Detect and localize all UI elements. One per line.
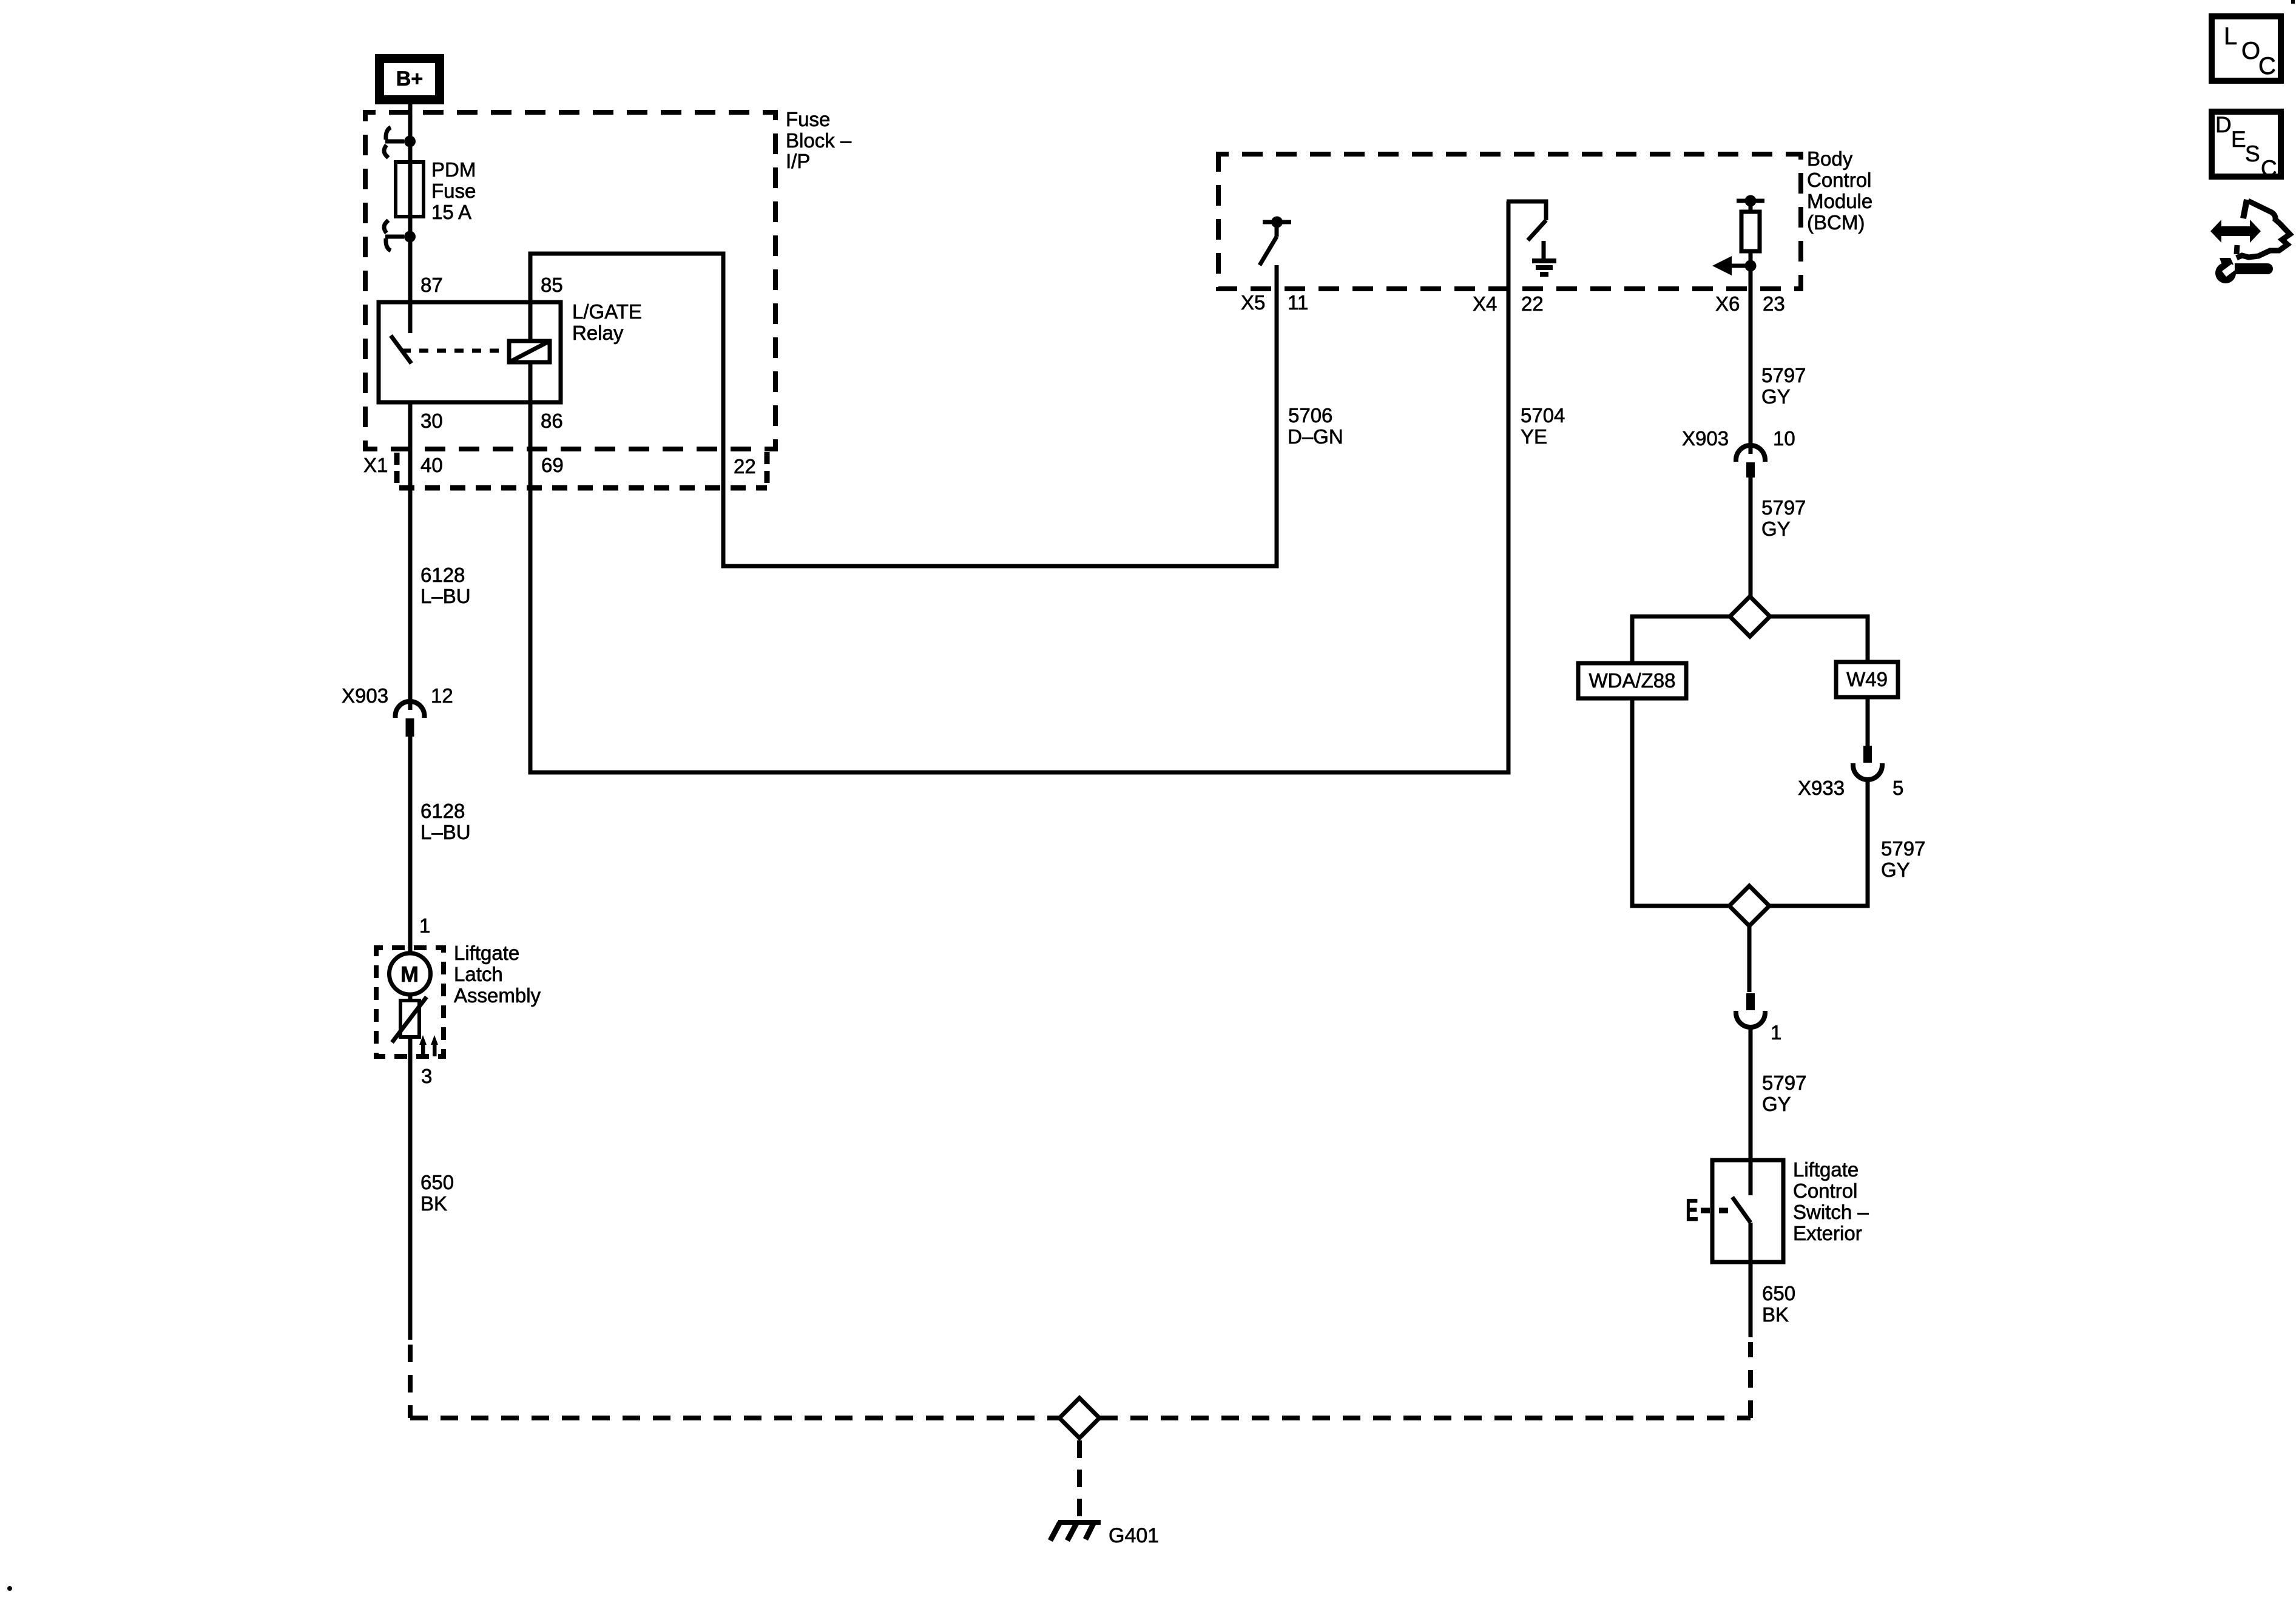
svg-text:10: 10 — [1773, 427, 1795, 450]
wire WDA/Z88 down to lower splice — [1632, 698, 1729, 906]
svg-text:5706: 5706 — [1288, 404, 1332, 427]
svg-text:X4: X4 — [1473, 292, 1497, 315]
svg-text:3: 3 — [421, 1065, 432, 1087]
svg-text:Control: Control — [1807, 169, 1871, 191]
svg-text:C: C — [2258, 53, 2276, 79]
BCM X4 internal ground symbol — [1542, 241, 1546, 260]
svg-text:GY: GY — [1762, 1093, 1791, 1115]
latch PTC thermistor — [400, 1001, 419, 1037]
svg-text:5797: 5797 — [1881, 837, 1925, 860]
svg-text:(BCM): (BCM) — [1807, 211, 1865, 234]
svg-text:BK: BK — [420, 1192, 447, 1215]
svg-text:23: 23 — [1763, 292, 1785, 315]
svg-text:Fuse: Fuse — [431, 180, 476, 202]
B+ battery feed box — [380, 59, 440, 100]
svg-text:15 A: 15 A — [431, 201, 471, 223]
latch direction arrows — [419, 1035, 438, 1056]
relay coil box — [509, 341, 550, 362]
dashed ground wire left vertical — [408, 1345, 413, 1418]
svg-text:5797: 5797 — [1762, 1072, 1806, 1094]
svg-text:22: 22 — [1521, 292, 1544, 315]
wire X903-10 down to splice — [1749, 478, 1753, 596]
connector X903-12 male pin — [406, 718, 414, 737]
connector X903-10 female dome — [1736, 445, 1765, 462]
svg-text:Block –: Block – — [786, 129, 852, 152]
svg-text:6128: 6128 — [420, 800, 465, 822]
svg-text:X933: X933 — [1798, 777, 1845, 799]
svg-text:Liftgate: Liftgate — [454, 942, 519, 964]
svg-text:Liftgate: Liftgate — [1793, 1158, 1859, 1181]
svg-text:87: 87 — [420, 274, 443, 296]
wire X933 down to lower splice — [1769, 779, 1868, 906]
connector X933-5 female cup — [1853, 763, 1882, 780]
svg-text:Exterior: Exterior — [1793, 1222, 1862, 1244]
BCM X6 resistor — [1749, 201, 1753, 212]
svg-text:Switch –: Switch – — [1793, 1201, 1869, 1223]
page artifact period bottom left — [7, 1586, 12, 1591]
wire 6128 L-BU relay 30 down to X903-12 — [408, 402, 413, 710]
wire lower splice down to connector 1 — [1747, 926, 1752, 992]
svg-text:69: 69 — [541, 454, 564, 476]
svg-text:GY: GY — [1761, 518, 1791, 540]
wire from B+ through fuse to relay pin 87 stub — [408, 104, 413, 333]
svg-text:X1: X1 — [363, 454, 388, 476]
electrical repair icon wrench — [2215, 258, 2236, 283]
LOC legend box — [2212, 16, 2281, 81]
fuse block I/P dashed box — [365, 112, 775, 449]
svg-text:12: 12 — [431, 684, 453, 707]
liftgate control switch box — [1712, 1160, 1783, 1262]
WDA/Z88 box — [1578, 663, 1686, 698]
svg-text:PDM: PDM — [431, 158, 476, 181]
svg-text:5797: 5797 — [1761, 496, 1806, 519]
svg-text:L–BU: L–BU — [420, 821, 471, 843]
svg-text:D–GN: D–GN — [1288, 425, 1343, 448]
fuse clip lower (junction dot, bar, hooks) — [404, 231, 416, 243]
switch blade — [1732, 1197, 1751, 1223]
svg-text:E: E — [2231, 127, 2246, 152]
svg-text:22: 22 — [734, 455, 756, 478]
BCM X6 wire below resistor — [1749, 251, 1753, 454]
svg-text:5704: 5704 — [1521, 404, 1565, 427]
svg-text:X903: X903 — [342, 684, 388, 707]
E marker dashes — [1701, 1208, 1728, 1214]
svg-text:11: 11 — [1288, 291, 1308, 314]
svg-text:Body: Body — [1807, 147, 1853, 170]
svg-text:5797: 5797 — [1761, 364, 1806, 387]
switch internal stub — [1749, 1160, 1753, 1195]
wire 5706 D-GN from BCM X5-11 to relay coil 85 — [530, 254, 1277, 566]
svg-text:6128: 6128 — [420, 564, 465, 586]
dashed stub to G401 — [1077, 1440, 1082, 1521]
BCM X6 top dot — [1745, 195, 1757, 207]
DESC legend box — [2212, 112, 2281, 177]
connector X933-5 male pin — [1863, 746, 1872, 763]
electrical repair icon glove outline — [2243, 200, 2247, 218]
svg-text:WDA/Z88: WDA/Z88 — [1589, 669, 1675, 692]
relay coil diagonal — [509, 341, 550, 362]
svg-text:85: 85 — [541, 274, 563, 296]
svg-text:M: M — [400, 962, 419, 987]
wire splice to W49 — [1770, 616, 1868, 662]
svg-text:YE: YE — [1521, 425, 1547, 448]
wire connector 1 to switch — [1749, 1027, 1753, 1160]
svg-text:650: 650 — [420, 1171, 454, 1193]
svg-text:W49: W49 — [1846, 668, 1888, 690]
svg-text:86: 86 — [541, 410, 563, 432]
svg-text:1: 1 — [419, 914, 430, 937]
svg-text:5: 5 — [1893, 777, 1903, 799]
svg-text:Assembly: Assembly — [454, 984, 541, 1007]
dashed ground wire left horizontal — [410, 1416, 1059, 1420]
svg-text:B+: B+ — [396, 67, 423, 90]
fuse PDM 15A rectangle — [396, 162, 424, 217]
svg-text:30: 30 — [420, 410, 443, 432]
fuse clip upper (junction dot, bar, hooks) — [404, 136, 416, 147]
svg-text:O: O — [2241, 38, 2260, 64]
svg-text:Latch: Latch — [454, 963, 503, 985]
wire switch to bottom 650 BK — [1749, 1223, 1753, 1337]
wire 6128 L-BU to latch — [408, 737, 413, 953]
BCM X6 junction dot — [1745, 260, 1757, 272]
ground splice diamond — [1059, 1398, 1099, 1438]
splice diamond lower — [1729, 886, 1769, 926]
connector pin 1 female cup — [1736, 1011, 1765, 1027]
svg-text:Module: Module — [1807, 190, 1872, 212]
dashed ground wire right vertical — [1748, 1342, 1753, 1418]
BCM X6 arrowhead — [1712, 256, 1732, 275]
wire 650 BK latch to ground run — [408, 1037, 413, 1340]
svg-text:L/GATE: L/GATE — [572, 300, 642, 323]
BCM X6 bar — [1737, 199, 1764, 203]
electrical repair icon double arrow — [2210, 220, 2261, 243]
svg-text:GY: GY — [1881, 859, 1910, 881]
wire W49 down to X933 — [1866, 697, 1870, 746]
W49 box — [1836, 662, 1898, 697]
svg-text:GY: GY — [1761, 385, 1791, 408]
G401 chassis ground symbol — [1058, 1520, 1101, 1525]
connector X903-12 female dome — [396, 701, 425, 718]
BCM X5 switch bar — [1263, 220, 1291, 224]
body control module dashed box — [1218, 154, 1801, 289]
latch motor M circle — [390, 953, 431, 994]
svg-text:BK: BK — [1762, 1303, 1789, 1326]
svg-text:40: 40 — [420, 454, 443, 476]
wire 5704 YE from BCM X4-22 to relay coil 86 — [530, 201, 1508, 772]
BCM X6 arrow line — [1732, 264, 1751, 268]
X1 connector dotted strip — [394, 453, 400, 483]
svg-text:I/P: I/P — [786, 150, 810, 172]
svg-text:G401: G401 — [1109, 1524, 1159, 1547]
thermistor diagonal slash — [392, 997, 427, 1042]
page artifact dot top right — [2291, 0, 2295, 4]
BCM X5 switch pivot dot — [1271, 217, 1283, 228]
L/GATE relay box — [379, 302, 561, 402]
svg-text:C: C — [2261, 156, 2277, 181]
svg-text:D: D — [2215, 112, 2232, 137]
motor to thermistor stub — [408, 994, 413, 1001]
svg-text:650: 650 — [1762, 1282, 1795, 1305]
svg-text:1: 1 — [1771, 1021, 1781, 1044]
relay switch blade — [391, 336, 411, 363]
dashed ground wire right horizontal — [1100, 1416, 1751, 1420]
splice diamond upper — [1730, 596, 1770, 636]
connector pin 1 male pin — [1746, 993, 1755, 1010]
svg-text:Fuse: Fuse — [786, 108, 830, 130]
connector X903-10 male pin — [1746, 462, 1755, 478]
svg-text:E: E — [1686, 1193, 1698, 1228]
svg-text:L: L — [2224, 23, 2237, 50]
liftgate latch assembly dashed box — [376, 948, 444, 1056]
wire splice to WDA/Z88 — [1632, 616, 1730, 663]
svg-text:X6: X6 — [1715, 292, 1740, 315]
svg-text:L–BU: L–BU — [420, 585, 471, 607]
svg-text:X5: X5 — [1241, 291, 1265, 314]
svg-text:Control: Control — [1793, 1180, 1857, 1202]
BCM X4 switch hook and blade — [1507, 201, 1546, 240]
svg-text:Relay: Relay — [572, 322, 624, 344]
svg-text:X903: X903 — [1682, 427, 1729, 450]
svg-text:S: S — [2245, 141, 2260, 166]
relay linkage dashed — [402, 349, 508, 353]
BCM X5 switch stub and blade — [1260, 222, 1277, 265]
